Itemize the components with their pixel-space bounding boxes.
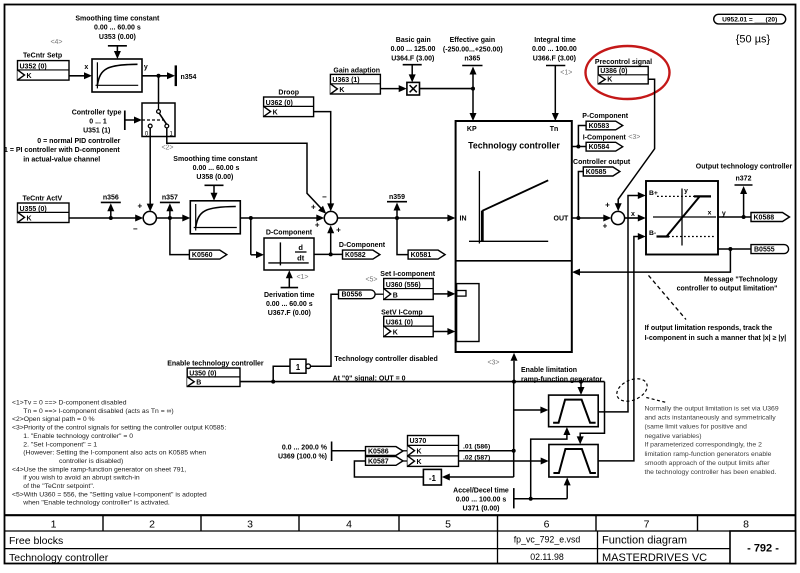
svg-text:8: 8 bbox=[743, 519, 749, 531]
svg-text:1: 1 bbox=[51, 519, 57, 531]
svg-text:0.00 ... 100.00: 0.00 ... 100.00 bbox=[532, 46, 577, 53]
svg-text:0.00 ... 100.00 s: 0.00 ... 100.00 s bbox=[456, 497, 507, 504]
svg-text:-1: -1 bbox=[429, 474, 437, 483]
svg-text:B+: B+ bbox=[649, 190, 658, 197]
svg-text:x: x bbox=[84, 64, 88, 71]
svg-text:Smoothing time constant: Smoothing time constant bbox=[75, 15, 160, 22]
svg-text:Function diagram: Function diagram bbox=[602, 535, 687, 547]
svg-text:(However: Setting the I-compon: (However: Setting the I-component also a… bbox=[23, 450, 206, 457]
svg-text:0.00 ... 60.00 s: 0.00 ... 60.00 s bbox=[266, 301, 313, 308]
svg-text:Tn = 0 ==> I-component disable: Tn = 0 ==> I-component disabled (acts as… bbox=[23, 408, 173, 415]
svg-text:B0555: B0555 bbox=[754, 247, 775, 254]
svg-text:if you wish to avoid an abrupt: if you wish to avoid an abrupt switch-in bbox=[23, 475, 140, 482]
svg-text:y: y bbox=[722, 210, 726, 217]
svg-text:<1>: <1> bbox=[560, 70, 572, 77]
svg-text:I-Component: I-Component bbox=[583, 134, 627, 141]
svg-text:Droop: Droop bbox=[278, 89, 299, 96]
svg-text:6: 6 bbox=[544, 519, 550, 531]
svg-text:<2>Open signal path = 0 %: <2>Open signal path = 0 % bbox=[12, 416, 95, 423]
svg-text:Output technology controller: Output technology controller bbox=[696, 164, 793, 171]
svg-text:y: y bbox=[684, 187, 688, 194]
svg-text:U350 (0): U350 (0) bbox=[189, 370, 216, 377]
svg-text:K: K bbox=[417, 449, 422, 456]
svg-text:+: + bbox=[603, 222, 608, 231]
svg-text:<3>: <3> bbox=[628, 134, 640, 141]
svg-text:If output limitation responds,: If output limitation responds, track the bbox=[645, 325, 773, 332]
svg-text:B: B bbox=[393, 292, 398, 299]
svg-text:1 = PI controller with D-compo: 1 = PI controller with D-component bbox=[4, 147, 120, 154]
svg-text:U367.F (0.00): U367.F (0.00) bbox=[268, 310, 311, 317]
svg-text:−: − bbox=[322, 193, 327, 202]
svg-text:of the "TeCntr setpoint".: of the "TeCntr setpoint". bbox=[23, 483, 94, 490]
svg-text:Technology controller: Technology controller bbox=[468, 141, 560, 151]
svg-text:<3>: <3> bbox=[487, 360, 499, 367]
svg-text:n357: n357 bbox=[162, 195, 178, 202]
svg-text:K: K bbox=[393, 330, 398, 337]
svg-text:K: K bbox=[417, 459, 422, 466]
svg-text:<2>: <2> bbox=[161, 145, 173, 152]
svg-text:Set I-component: Set I-component bbox=[380, 271, 436, 278]
svg-text:.01 (586): .01 (586) bbox=[463, 443, 490, 450]
svg-text:Message "Technology: Message "Technology bbox=[704, 277, 778, 284]
svg-text:+: + bbox=[311, 203, 316, 212]
svg-text:(-250.00...+250.00): (-250.00...+250.00) bbox=[443, 46, 503, 53]
svg-text:U363 (1): U363 (1) bbox=[332, 77, 359, 84]
svg-text:Accel/Decel time: Accel/Decel time bbox=[453, 487, 509, 494]
svg-text:3: 3 bbox=[247, 519, 253, 531]
svg-text:fp_vc_792_e.vsd: fp_vc_792_e.vsd bbox=[514, 535, 581, 545]
svg-text:x: x bbox=[708, 210, 712, 217]
svg-text:P-Component: P-Component bbox=[582, 113, 629, 120]
svg-text:K: K bbox=[339, 87, 344, 94]
svg-text:<1>Tv = 0 ==> D-component disa: <1>Tv = 0 ==> D-component disabled bbox=[12, 400, 127, 407]
svg-text:x: x bbox=[631, 211, 635, 218]
svg-text:when "Enable technology contro: when "Enable technology controller" is a… bbox=[22, 500, 170, 507]
svg-text:y: y bbox=[144, 64, 148, 71]
svg-text:<1>: <1> bbox=[296, 274, 308, 281]
svg-text:Normally the output limitation: Normally the output limitation is set vi… bbox=[645, 406, 779, 413]
svg-text:TeCntr Setp: TeCntr Setp bbox=[23, 53, 62, 60]
svg-text:K: K bbox=[27, 215, 32, 222]
svg-text:+: + bbox=[315, 220, 320, 229]
svg-text:K: K bbox=[27, 73, 32, 80]
svg-text:ramp-function generator: ramp-function generator bbox=[521, 376, 603, 383]
svg-text:1. "Enable technology controll: 1. "Enable technology controller" = 0 bbox=[23, 433, 133, 440]
svg-text:+: + bbox=[137, 202, 142, 211]
svg-text:Precontrol signal: Precontrol signal bbox=[595, 59, 652, 66]
svg-text:1: 1 bbox=[296, 363, 301, 372]
svg-text:KP: KP bbox=[467, 126, 477, 133]
svg-text:dt: dt bbox=[297, 254, 305, 263]
svg-text:U364.F (3.00): U364.F (3.00) bbox=[391, 55, 434, 62]
svg-text:negative variables): negative variables) bbox=[645, 433, 702, 440]
svg-text:B0556: B0556 bbox=[342, 292, 363, 299]
svg-text:K: K bbox=[273, 109, 278, 116]
svg-text:B-: B- bbox=[649, 230, 656, 237]
svg-text:K0585: K0585 bbox=[586, 169, 607, 176]
svg-text:U360 (556): U360 (556) bbox=[386, 282, 421, 289]
svg-text:Controller type: Controller type bbox=[72, 110, 122, 117]
svg-text:0.0 ... 200.0 %: 0.0 ... 200.0 % bbox=[282, 444, 328, 451]
svg-text:<5>With U360 = 556, the "Setti: <5>With U360 = 556, the "Setting value I… bbox=[12, 491, 207, 498]
svg-text:K: K bbox=[607, 77, 612, 84]
svg-text:0.00 ... 125.00: 0.00 ... 125.00 bbox=[391, 46, 436, 53]
svg-text:- 792 -: - 792 - bbox=[747, 543, 779, 555]
svg-text:U370: U370 bbox=[410, 438, 427, 445]
svg-text:I-component in such a manner t: I-component in such a manner that |x| ≥ … bbox=[645, 335, 787, 342]
svg-text:limitation ramp-function gener: limitation ramp-function generators enab… bbox=[645, 451, 772, 458]
svg-text:Free blocks: Free blocks bbox=[9, 535, 63, 547]
svg-text:7: 7 bbox=[644, 519, 650, 531]
svg-text:U369 (100.0 %): U369 (100.0 %) bbox=[278, 454, 327, 461]
svg-text:U361 (0): U361 (0) bbox=[386, 319, 413, 326]
svg-text:D-Component: D-Component bbox=[339, 242, 386, 249]
svg-text:Integral time: Integral time bbox=[534, 37, 576, 44]
svg-text:U386 (0): U386 (0) bbox=[600, 68, 627, 75]
svg-text:IN: IN bbox=[460, 216, 467, 223]
svg-text:U366.F (3.00): U366.F (3.00) bbox=[533, 55, 576, 62]
svg-text:U352 (0): U352 (0) bbox=[20, 63, 47, 70]
svg-text:Technology controller: Technology controller bbox=[9, 552, 109, 564]
svg-text:U952.01 = ___(20): U952.01 = ___(20) bbox=[722, 17, 777, 24]
svg-text:+: + bbox=[605, 200, 610, 209]
svg-text:D-Component: D-Component bbox=[266, 229, 313, 236]
svg-text:U362 (0): U362 (0) bbox=[266, 100, 293, 107]
svg-text:{50 µs}: {50 µs} bbox=[736, 34, 771, 46]
svg-text:<4>: <4> bbox=[50, 39, 62, 46]
svg-text:U355 (0): U355 (0) bbox=[20, 206, 47, 213]
svg-text:Derivation time: Derivation time bbox=[264, 292, 315, 299]
svg-text:B: B bbox=[196, 379, 201, 386]
svg-text:SetV I-Comp: SetV I-Comp bbox=[381, 309, 423, 316]
svg-text:U353 (0.00): U353 (0.00) bbox=[99, 34, 136, 41]
svg-text:<5>: <5> bbox=[365, 277, 377, 284]
svg-text:in actual-value channel: in actual-value channel bbox=[23, 157, 100, 164]
svg-text:−: − bbox=[133, 224, 138, 233]
svg-text:K0560: K0560 bbox=[192, 252, 213, 259]
svg-text:n365: n365 bbox=[464, 55, 480, 62]
svg-text:OUT: OUT bbox=[554, 216, 570, 223]
svg-text:0 ... 1: 0 ... 1 bbox=[89, 118, 107, 125]
svg-text:U358 (0.00): U358 (0.00) bbox=[196, 174, 233, 181]
svg-text:<4>Use the simple ramp-functio: <4>Use the simple ramp-function generato… bbox=[12, 466, 186, 473]
svg-text:0 = normal PID controller: 0 = normal PID controller bbox=[37, 138, 120, 145]
svg-text:K0586: K0586 bbox=[368, 448, 389, 455]
svg-text:d: d bbox=[298, 243, 303, 252]
svg-text:2: 2 bbox=[149, 519, 155, 531]
svg-text:<3>Priority of the control sig: <3>Priority of the control signals for s… bbox=[12, 425, 226, 432]
svg-text:4: 4 bbox=[346, 519, 352, 531]
svg-text:K0582: K0582 bbox=[345, 252, 366, 259]
svg-text:smooth approach of the output: smooth approach of the output limits aft… bbox=[645, 460, 771, 467]
svg-text:controller to output limitatio: controller to output limitation" bbox=[677, 285, 778, 292]
svg-text:K0588: K0588 bbox=[754, 215, 775, 222]
svg-text:Smoothing time constant: Smoothing time constant bbox=[173, 156, 258, 163]
svg-text:Enable limitation: Enable limitation bbox=[521, 367, 577, 374]
svg-text:Basic gain: Basic gain bbox=[396, 37, 431, 44]
svg-text:TeCntr ActV: TeCntr ActV bbox=[23, 195, 63, 202]
svg-text:and acts instantaneously and s: and acts instantaneously and symmetrical… bbox=[645, 415, 777, 422]
svg-text:2. "Set I-component" = 1: 2. "Set I-component" = 1 bbox=[23, 441, 97, 448]
svg-text:controller is disabled): controller is disabled) bbox=[59, 458, 123, 465]
svg-text:n372: n372 bbox=[736, 175, 752, 182]
svg-text:Effective gain: Effective gain bbox=[450, 37, 496, 44]
svg-text:K0584: K0584 bbox=[589, 144, 610, 151]
svg-text:Gain adaption: Gain adaption bbox=[333, 67, 380, 74]
svg-text:Controller output: Controller output bbox=[573, 159, 631, 166]
svg-text:Enable technology controller: Enable technology controller bbox=[167, 361, 264, 368]
svg-text:n359: n359 bbox=[389, 194, 405, 201]
svg-text:n354: n354 bbox=[181, 74, 197, 81]
svg-text:n356: n356 bbox=[103, 195, 119, 202]
svg-text:Technology controller disabled: Technology controller disabled bbox=[334, 356, 437, 363]
svg-text:0.00 ... 60.00 s: 0.00 ... 60.00 s bbox=[94, 25, 141, 32]
svg-text:the technology controller has: the technology controller has been enabl… bbox=[645, 469, 777, 476]
svg-text:U351 (1): U351 (1) bbox=[83, 127, 110, 134]
svg-text:Tn: Tn bbox=[550, 126, 559, 133]
svg-text:K0587: K0587 bbox=[368, 458, 389, 465]
svg-text:MASTERDRIVES VC: MASTERDRIVES VC bbox=[602, 552, 707, 564]
svg-text:0.00 ... 60.00 s: 0.00 ... 60.00 s bbox=[193, 165, 240, 172]
svg-text:+: + bbox=[336, 225, 341, 234]
svg-text:02.11.98: 02.11.98 bbox=[530, 552, 564, 562]
svg-text:K0581: K0581 bbox=[411, 252, 432, 259]
svg-text:U371 (0.00): U371 (0.00) bbox=[463, 506, 500, 513]
svg-text:If parameterized corresponding: If parameterized correspondingly, the 2 bbox=[645, 442, 763, 449]
svg-text:(same limit values for positiv: (same limit values for positive and bbox=[645, 424, 748, 431]
svg-text:K0583: K0583 bbox=[589, 123, 610, 130]
svg-text:5: 5 bbox=[445, 519, 451, 531]
